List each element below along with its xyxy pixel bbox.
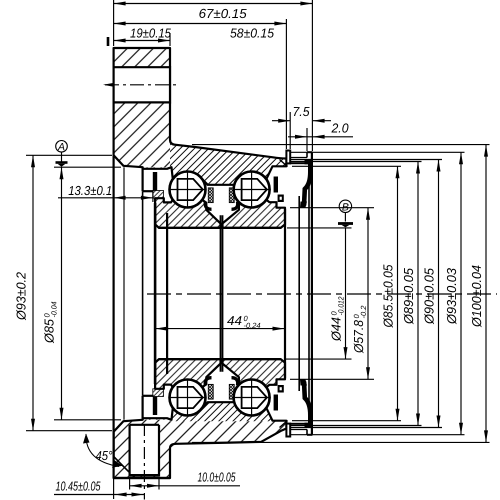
svg-text:58±0.15: 58±0.15 <box>230 25 275 40</box>
svg-text:44: 44 <box>227 313 242 328</box>
svg-text:-0.04: -0.04 <box>49 301 58 317</box>
svg-text:Ø100±0.04: Ø100±0.04 <box>469 265 484 328</box>
svg-text:7.5: 7.5 <box>292 104 310 119</box>
svg-text:67±0.15: 67±0.15 <box>199 6 248 21</box>
svg-text:-0.2: -0.2 <box>359 305 368 319</box>
svg-text:10.45±0.05: 10.45±0.05 <box>55 478 101 493</box>
svg-text:13.3±0.1: 13.3±0.1 <box>68 183 112 198</box>
svg-text:45°: 45° <box>95 448 112 463</box>
svg-text:Ø57.8: Ø57.8 <box>351 319 366 354</box>
svg-text:Ø93±0.2: Ø93±0.2 <box>13 271 28 321</box>
svg-text:Ø44: Ø44 <box>329 317 344 342</box>
svg-text:-0.012: -0.012 <box>336 296 345 316</box>
svg-text:Ø93±0.03: Ø93±0.03 <box>444 267 459 325</box>
svg-text:Ø90±0.05: Ø90±0.05 <box>421 267 436 325</box>
svg-text:Ø85.5±0.05: Ø85.5±0.05 <box>380 264 395 329</box>
svg-text:10.0±0.05: 10.0±0.05 <box>197 469 236 484</box>
svg-text:A: A <box>57 141 65 153</box>
svg-text:Ø89±0.05: Ø89±0.05 <box>401 267 416 325</box>
svg-text:-0.24: -0.24 <box>243 321 260 330</box>
svg-text:2.0: 2.0 <box>331 120 350 135</box>
svg-text:19±0.15: 19±0.15 <box>130 25 172 40</box>
svg-text:Ø85: Ø85 <box>41 318 56 344</box>
